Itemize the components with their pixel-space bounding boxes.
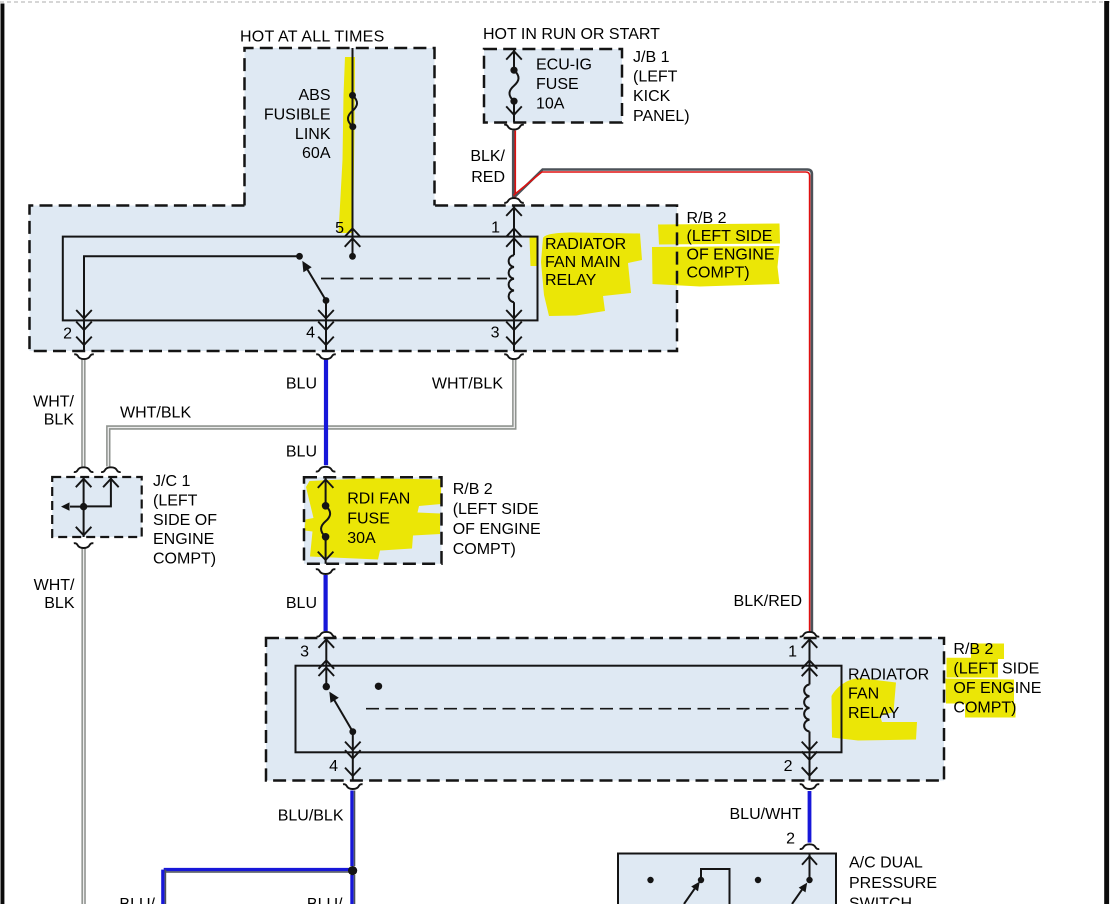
svg-text:3: 3	[491, 325, 500, 342]
svg-text:ABS: ABS	[298, 87, 330, 104]
svg-text:1: 1	[491, 220, 500, 237]
svg-text:RELAY: RELAY	[545, 272, 597, 289]
svg-text:2: 2	[786, 831, 795, 848]
svg-text:BLU: BLU	[286, 444, 317, 461]
svg-text:COMPT): COMPT)	[453, 541, 516, 558]
svg-text:HOT IN RUN OR START: HOT IN RUN OR START	[483, 26, 660, 43]
svg-text:COMPT): COMPT)	[687, 265, 750, 282]
svg-text:4: 4	[306, 325, 315, 342]
svg-text:(LEFT SIDE: (LEFT SIDE	[687, 228, 773, 245]
svg-text:ENGINE: ENGINE	[153, 531, 214, 548]
svg-text:RED: RED	[471, 169, 505, 186]
svg-text:COMPT): COMPT)	[153, 551, 216, 568]
svg-text:ECU-IG: ECU-IG	[536, 57, 592, 74]
svg-text:KICK: KICK	[633, 88, 671, 105]
svg-text:A/C DUAL: A/C DUAL	[849, 855, 923, 872]
svg-text:COMPT): COMPT)	[953, 700, 1016, 717]
svg-text:R/B 2: R/B 2	[453, 481, 493, 498]
svg-text:WHT/BLK: WHT/BLK	[120, 405, 191, 422]
svg-text:RADIATOR: RADIATOR	[545, 236, 626, 253]
svg-text:SIDE OF: SIDE OF	[153, 512, 217, 529]
svg-text:BLU: BLU	[286, 376, 317, 393]
svg-text:WHT/: WHT/	[33, 394, 74, 411]
svg-text:1: 1	[788, 644, 797, 661]
svg-text:FAN: FAN	[848, 686, 879, 703]
svg-text:R/B 2: R/B 2	[953, 641, 993, 658]
svg-text:WHT/: WHT/	[34, 577, 75, 594]
svg-text:BLK: BLK	[44, 412, 75, 429]
svg-text:BLK: BLK	[44, 595, 75, 612]
svg-text:3: 3	[300, 644, 309, 661]
svg-text:LINK: LINK	[295, 126, 331, 143]
svg-text:FUSIBLE: FUSIBLE	[264, 106, 331, 123]
svg-text:BLU: BLU	[286, 595, 317, 612]
svg-text:OF ENGINE: OF ENGINE	[687, 246, 775, 263]
svg-text:BLK/: BLK/	[470, 148, 505, 165]
svg-text:R/B 2: R/B 2	[687, 210, 727, 227]
svg-text:OF ENGINE: OF ENGINE	[953, 680, 1041, 697]
svg-text:BLK/RED: BLK/RED	[734, 593, 802, 610]
svg-text:J/C 1: J/C 1	[153, 473, 190, 490]
svg-text:4: 4	[329, 758, 338, 775]
svg-text:RELAY: RELAY	[848, 705, 900, 722]
svg-text:(LEFT: (LEFT	[153, 492, 198, 509]
svg-text:BLU/: BLU/	[307, 896, 343, 904]
svg-text:PANEL): PANEL)	[633, 108, 690, 125]
svg-text:(LEFT SIDE: (LEFT SIDE	[953, 661, 1039, 678]
svg-text:2: 2	[63, 326, 72, 343]
svg-text:2: 2	[784, 758, 793, 775]
svg-text:10A: 10A	[536, 96, 565, 113]
svg-text:(LEFT: (LEFT	[633, 69, 678, 86]
svg-text:(LEFT SIDE: (LEFT SIDE	[453, 501, 539, 518]
svg-text:J/B 1: J/B 1	[633, 49, 670, 66]
svg-text:SWITCH: SWITCH	[849, 896, 912, 904]
svg-text:BLU/BLK: BLU/BLK	[278, 808, 344, 825]
svg-text:RADIATOR: RADIATOR	[848, 667, 929, 684]
svg-text:WHT/BLK: WHT/BLK	[432, 376, 503, 393]
svg-text:RDI FAN: RDI FAN	[347, 490, 410, 507]
svg-text:BLU/WHT: BLU/WHT	[730, 806, 802, 823]
svg-text:30A: 30A	[347, 530, 376, 547]
svg-text:60A: 60A	[302, 145, 331, 162]
svg-text:OF ENGINE: OF ENGINE	[453, 521, 541, 538]
svg-text:5: 5	[335, 220, 344, 237]
svg-text:BLU/: BLU/	[119, 896, 155, 904]
svg-text:HOT AT ALL TIMES: HOT AT ALL TIMES	[240, 29, 385, 46]
svg-text:FUSE: FUSE	[347, 510, 390, 527]
svg-text:FAN MAIN: FAN MAIN	[545, 254, 621, 271]
svg-text:PRESSURE: PRESSURE	[849, 875, 937, 892]
svg-text:FUSE: FUSE	[536, 76, 579, 93]
